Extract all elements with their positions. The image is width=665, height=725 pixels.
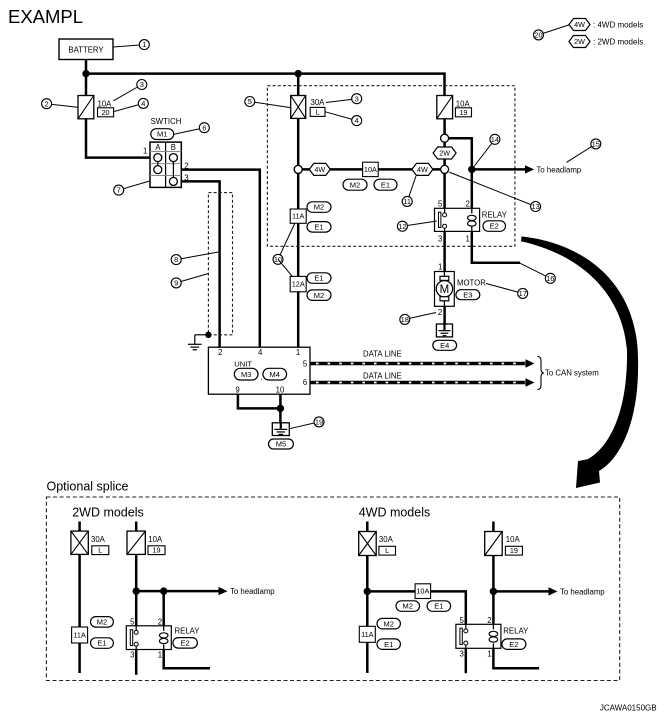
2WD node splice 1	[133, 587, 140, 594]
connector E3 oval	[456, 290, 480, 300]
svg-text:19: 19	[315, 418, 323, 427]
4WD connector 11A	[359, 626, 375, 642]
4WD wire relay pin1	[493, 648, 539, 668]
callout 12	[397, 221, 436, 231]
4WD terminal 19	[505, 546, 522, 555]
legend text 2WD models	[593, 37, 643, 46]
battery B1	[59, 39, 113, 60]
2WD wire above fusible link	[78, 522, 81, 533]
svg-text:M2: M2	[350, 180, 360, 189]
2WD wire fusible link down	[78, 554, 81, 673]
callout 8	[171, 252, 218, 265]
node shield ground junction	[205, 332, 211, 338]
svg-text:To headlamp: To headlamp	[560, 587, 605, 596]
svg-text:3: 3	[459, 649, 463, 658]
svg-text:2W: 2W	[574, 37, 585, 46]
fusible link F2 30A	[291, 96, 306, 119]
svg-text:E3: E3	[463, 290, 472, 299]
label F2 30A	[311, 98, 326, 107]
4WD connector M2 oval at 11A	[377, 618, 400, 629]
svg-text:M2: M2	[314, 291, 324, 300]
switch pin 2 label	[184, 162, 188, 171]
svg-text:E1: E1	[314, 274, 323, 283]
wire F1 to switch pin1	[86, 118, 151, 157]
svg-text:M2: M2	[314, 203, 324, 212]
relay pin 1 label	[466, 235, 470, 244]
brace to CAN	[538, 357, 545, 390]
4WD node splice 2	[490, 588, 497, 595]
svg-text:20: 20	[101, 108, 109, 117]
svg-text:10A: 10A	[416, 587, 429, 596]
wire relay pin1	[472, 231, 520, 262]
4WD label 10A	[506, 535, 521, 544]
svg-text:E2: E2	[181, 638, 190, 647]
callout 20	[534, 25, 570, 40]
svg-text:To headlamp: To headlamp	[537, 165, 582, 174]
2WD wire relay pin3 down	[135, 650, 138, 675]
svg-text:17: 17	[519, 289, 527, 298]
callout 19	[290, 417, 325, 429]
connector M2 oval at 12A	[307, 290, 331, 301]
2WD relay pin 2 label	[158, 617, 162, 626]
connector E1 oval at 12A	[307, 273, 331, 284]
connector M2 oval	[343, 179, 367, 190]
svg-text:10A: 10A	[148, 535, 163, 544]
svg-text:M2: M2	[97, 617, 107, 626]
connector M5 oval	[269, 439, 294, 449]
legend hexagon 4W	[569, 19, 590, 31]
4WD connector E2 oval	[502, 639, 526, 650]
motor E3	[435, 272, 455, 307]
optional splice dashed box	[46, 497, 619, 681]
4WD wire above fuse	[492, 522, 495, 533]
svg-text:1: 1	[487, 649, 491, 658]
svg-text:4: 4	[355, 116, 359, 125]
dashed boundary box (system)	[267, 86, 515, 247]
2WD arrow to headlamp	[219, 587, 228, 595]
connector 12A	[290, 276, 306, 291]
ground E4 (boxed)	[436, 324, 452, 337]
relay E2	[435, 208, 480, 231]
svg-text:E1: E1	[381, 180, 390, 189]
svg-text:9: 9	[174, 279, 178, 288]
svg-text:1: 1	[142, 40, 146, 49]
title EXAMPL	[8, 6, 83, 27]
svg-text:30A: 30A	[91, 535, 106, 544]
wire F3 to relay pin5	[443, 118, 446, 208]
svg-text:: 2WD models: : 2WD models	[593, 37, 643, 46]
svg-text:2W: 2W	[439, 149, 450, 158]
svg-text:10A: 10A	[506, 535, 521, 544]
svg-text:M: M	[440, 284, 450, 296]
node bus junction at battery	[82, 70, 89, 77]
connector E1 oval	[374, 179, 397, 190]
svg-text:DATA LINE: DATA LINE	[363, 350, 402, 359]
callout 1	[114, 40, 150, 50]
svg-text:E1: E1	[97, 639, 106, 648]
callout 3 at F2	[326, 94, 362, 104]
svg-text:2: 2	[45, 99, 49, 108]
label F1 10A	[98, 99, 113, 108]
2WD connector 11A	[72, 627, 88, 643]
svg-text:5: 5	[438, 199, 443, 208]
4WD arrow to headlamp	[549, 587, 558, 595]
svg-text:3: 3	[140, 80, 144, 89]
svg-text:RELAY: RELAY	[503, 627, 529, 636]
2WD label 30A	[91, 535, 106, 544]
svg-text:12A: 12A	[292, 280, 305, 289]
ground (shield)	[188, 335, 202, 350]
2WD node splice 2	[160, 587, 167, 594]
2WD wire fuse to relay pin5	[135, 554, 138, 626]
label Optional splice	[47, 479, 129, 493]
4WD wire left down	[366, 556, 369, 674]
svg-text:: 4WD models: : 4WD models	[593, 20, 643, 29]
2WD terminal L	[92, 546, 109, 555]
wire unit pin9	[238, 394, 281, 408]
svg-text:L: L	[316, 107, 320, 116]
callout 5	[245, 97, 291, 108]
4WD relay pin 1 label	[487, 649, 491, 658]
label To headlamp	[537, 165, 582, 174]
wire 4W branch	[298, 168, 444, 171]
svg-text:5: 5	[130, 617, 135, 626]
callout 15	[566, 139, 600, 163]
svg-text:13: 13	[531, 202, 539, 211]
4WD label RELAY	[503, 627, 529, 636]
hexagon 4W right	[412, 163, 433, 175]
data line 2 (CAN L)	[310, 378, 535, 387]
svg-text:5: 5	[303, 359, 308, 368]
svg-text:EXAMPL: EXAMPL	[8, 6, 83, 27]
wire to headlamp	[472, 168, 526, 171]
switch pin 3 label	[184, 173, 188, 182]
svg-text:11A: 11A	[361, 630, 374, 639]
connector E4 oval	[433, 340, 457, 350]
svg-text:RELAY: RELAY	[175, 627, 201, 636]
svg-text:M3: M3	[241, 370, 251, 379]
connector M2 oval at 11A	[307, 202, 331, 213]
4WD relay pin 2 label	[487, 616, 491, 625]
relay pin 2 label	[466, 199, 470, 208]
2WD connector E2 oval	[173, 638, 198, 649]
svg-text:E4: E4	[440, 341, 449, 350]
label 4WD models	[359, 506, 431, 520]
svg-text:SWTICH: SWTICH	[151, 117, 182, 126]
label RELAY	[482, 210, 508, 219]
2WD relay pin 1 label	[158, 651, 162, 660]
2WD wire to headlamp	[136, 590, 219, 593]
wire 2W bypass to headlamp node	[445, 138, 472, 208]
connector E2 oval	[483, 221, 506, 232]
svg-text:E1: E1	[314, 222, 323, 231]
connector M1	[151, 129, 174, 140]
wire relay pin3 to motor	[443, 231, 446, 272]
svg-text:12: 12	[398, 222, 406, 231]
svg-text:19: 19	[510, 546, 518, 555]
switch label SWTICH	[151, 117, 182, 126]
2WD wire relay pin1	[164, 650, 210, 669]
callout 4 at F1	[114, 98, 148, 111]
curved arrow to optional splice	[521, 236, 638, 488]
callout 6	[174, 123, 209, 135]
callout 10	[273, 224, 295, 277]
svg-text:DATA LINE: DATA LINE	[363, 372, 402, 381]
svg-text:1: 1	[438, 262, 442, 271]
4WD wire relay pin3 down	[465, 648, 468, 673]
switch M1 contact grid	[150, 142, 181, 187]
label To CAN system	[545, 369, 599, 378]
callout 3 at F1	[114, 80, 147, 101]
svg-text:UNIT: UNIT	[234, 360, 252, 369]
wire bus to fusible link	[297, 74, 300, 97]
shield dashed box	[208, 193, 232, 335]
wire battery to bus	[85, 58, 88, 97]
4WD label 30A	[379, 535, 394, 544]
svg-text:11: 11	[403, 197, 411, 206]
svg-text:14: 14	[491, 135, 499, 144]
svg-text:To headlamp: To headlamp	[230, 587, 275, 596]
svg-text:To CAN system: To CAN system	[545, 369, 599, 378]
svg-text:4W: 4W	[417, 165, 428, 174]
node headlamp junction	[468, 166, 475, 173]
callout 9	[171, 274, 208, 288]
motor pin 1 label	[438, 262, 442, 271]
label F3 10A	[456, 99, 471, 108]
callout 7	[114, 181, 150, 195]
svg-text:BATTERY: BATTERY	[68, 45, 104, 54]
legend hexagon 2W	[569, 36, 590, 48]
figure code JCAWA0150GB	[600, 704, 657, 713]
svg-text:19: 19	[459, 108, 467, 117]
svg-text:30A: 30A	[311, 98, 326, 107]
callout 18	[400, 313, 436, 325]
connector 11A	[290, 209, 306, 223]
svg-text:16: 16	[546, 274, 554, 283]
svg-text:4WD models: 4WD models	[359, 506, 431, 520]
svg-text:6: 6	[202, 123, 206, 132]
switch pin 1 label	[143, 146, 147, 155]
svg-text:1: 1	[143, 146, 147, 155]
svg-text:E2: E2	[509, 640, 518, 649]
svg-text:20: 20	[534, 31, 542, 40]
svg-text:M5: M5	[276, 440, 286, 449]
motor pin 2 label	[438, 308, 442, 317]
svg-text:18: 18	[401, 315, 409, 324]
svg-text:M1: M1	[157, 130, 167, 139]
svg-text:4W: 4W	[574, 20, 585, 29]
svg-text:5: 5	[248, 97, 252, 106]
connector circle left	[294, 165, 302, 173]
4WD wire above fusible link	[366, 522, 369, 533]
connector circle on center wire	[294, 165, 302, 173]
arrow to headlamp	[525, 165, 534, 173]
svg-text:5: 5	[459, 616, 464, 625]
svg-text:Optional splice: Optional splice	[47, 479, 129, 493]
2WD connector E1 oval	[91, 638, 114, 649]
callout 13	[449, 172, 540, 211]
4WD fusible link 30A	[359, 532, 377, 556]
svg-text:6: 6	[303, 378, 307, 387]
4WD fuse 10A	[485, 532, 503, 556]
svg-text:1: 1	[466, 235, 470, 244]
svg-text:11A: 11A	[292, 212, 305, 221]
svg-text:B: B	[171, 143, 176, 152]
svg-text:M2: M2	[383, 619, 393, 628]
relay pin 3 label	[438, 235, 442, 244]
svg-text:4W: 4W	[314, 165, 325, 174]
4WD relay pin 3 label	[459, 649, 463, 658]
svg-text:2: 2	[487, 616, 491, 625]
label F3 terminal 19	[455, 108, 471, 117]
svg-text:A: A	[155, 143, 161, 152]
svg-text:JCAWA0150GB: JCAWA0150GB	[600, 704, 657, 713]
2WD wire above fuse	[135, 522, 138, 533]
callout 11	[402, 176, 416, 206]
wire shield to ground	[195, 334, 209, 336]
label DATA LINE 1	[363, 350, 402, 359]
wire switch pin2 to unit pin4	[181, 170, 259, 348]
fuse F1 10A	[78, 96, 94, 119]
2WD relay pin 3 label	[130, 651, 134, 660]
label F2 terminal L	[310, 107, 325, 116]
connector circle upper	[441, 134, 449, 142]
2WD label To headlamp	[230, 587, 275, 596]
connector E1 oval at 11A	[307, 222, 331, 233]
svg-text:E2: E2	[490, 222, 499, 231]
legend text 4WD models	[593, 20, 643, 29]
svg-text:E1: E1	[384, 640, 393, 649]
svg-text:9: 9	[235, 386, 239, 395]
wire main bus	[86, 74, 445, 97]
svg-text:10: 10	[276, 386, 285, 395]
svg-text:4: 4	[258, 348, 263, 357]
svg-text:M2: M2	[403, 602, 413, 611]
hexagon 2W	[433, 147, 456, 159]
4WD node splice 1	[364, 588, 371, 595]
svg-text:11A: 11A	[73, 631, 86, 640]
data line 1 (CAN H)	[310, 359, 535, 368]
label F1 terminal 20	[98, 108, 114, 117]
svg-text:L: L	[98, 546, 102, 555]
connector circle lower	[441, 165, 449, 173]
svg-text:2: 2	[438, 308, 442, 317]
4WD connector E1 oval	[427, 601, 451, 612]
svg-text:3: 3	[355, 94, 359, 103]
4WD connector 10A	[415, 584, 431, 599]
svg-text:30A: 30A	[379, 535, 394, 544]
svg-text:M4: M4	[270, 370, 280, 379]
callout 16	[519, 263, 555, 284]
callout 2	[42, 99, 78, 109]
callout 4 at F2	[325, 112, 361, 126]
4WD relay pin 5 label	[459, 616, 464, 625]
svg-text:4: 4	[141, 99, 145, 108]
label MOTOR	[457, 279, 486, 288]
unit M3/M4	[208, 347, 310, 394]
svg-text:10A: 10A	[364, 165, 377, 174]
svg-text:3: 3	[438, 235, 442, 244]
svg-text:2: 2	[466, 199, 470, 208]
4WD connector M2 oval	[396, 601, 420, 612]
wire unit pin10 to ground	[279, 394, 282, 423]
4WD wire to headlamp	[493, 590, 549, 593]
4WD relay E2	[456, 624, 501, 648]
connector 10A inline	[363, 162, 379, 176]
4WD connector E1 oval at 11A	[377, 639, 400, 650]
svg-text:19: 19	[152, 546, 160, 555]
4WD wire splice through 10A	[367, 591, 466, 625]
svg-text:E1: E1	[434, 602, 443, 611]
callout 14	[474, 134, 500, 166]
2WD label 10A	[148, 535, 163, 544]
ground M5 (boxed)	[272, 423, 289, 436]
fuse F3 10A	[437, 96, 453, 119]
hexagon 4W left	[309, 163, 330, 175]
4WD wire fuse to relay pin2	[492, 556, 495, 626]
svg-text:8: 8	[174, 255, 178, 264]
2WD wire splice to relay pin2	[162, 591, 165, 626]
node ground junction	[277, 405, 284, 412]
svg-text:2: 2	[218, 348, 222, 357]
4WD label To headlamp	[560, 587, 605, 596]
wire motor to ground	[443, 306, 446, 325]
label DATA LINE 2	[363, 372, 402, 381]
wire switch pin3 to unit pin2	[181, 181, 219, 348]
svg-text:1: 1	[296, 348, 300, 357]
svg-text:7: 7	[117, 186, 121, 195]
callout 17	[486, 284, 528, 299]
2WD relay pin 5 label	[130, 617, 135, 626]
wire fusible link to unit pin1	[297, 118, 300, 348]
svg-text:2: 2	[158, 617, 162, 626]
2WD relay E2	[126, 626, 171, 650]
svg-text:15: 15	[592, 140, 600, 149]
relay pin 5 label	[438, 199, 443, 208]
svg-text:MOTOR: MOTOR	[457, 279, 486, 288]
svg-text:1: 1	[158, 651, 162, 660]
svg-text:L: L	[385, 546, 389, 555]
svg-text:2WD models: 2WD models	[72, 506, 144, 520]
2WD fuse 10A	[127, 531, 145, 554]
2WD label RELAY	[175, 627, 201, 636]
2WD fusible link 30A	[71, 531, 88, 554]
svg-text:3: 3	[130, 651, 134, 660]
2WD connector M2 oval	[91, 617, 114, 628]
svg-text:RELAY: RELAY	[482, 210, 508, 219]
node bus junction feed 30A	[295, 70, 302, 77]
2WD terminal 19	[148, 546, 165, 555]
4WD terminal L	[379, 546, 396, 555]
label 2WD models	[72, 506, 144, 520]
